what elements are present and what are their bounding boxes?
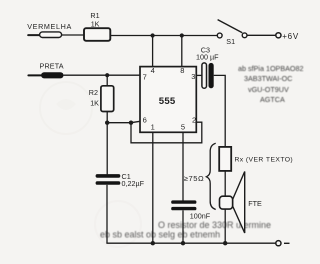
wire pin 8 riser	[181, 36, 183, 68]
svg-text:100 µF: 100 µF	[196, 52, 219, 61]
svg-text:R2: R2	[89, 88, 98, 97]
wire pin 1 to rail	[152, 132, 154, 243]
faint bleed-through text bottom	[100, 220, 271, 240]
wire probe to R1	[62, 34, 84, 36]
resistor R2	[101, 86, 114, 112]
capacitor 100nF	[171, 200, 196, 210]
svg-text:eb sb ealst ob selg eb etnemh: eb sb ealst ob selg eb etnemh	[100, 230, 220, 240]
switch S1	[217, 20, 247, 38]
speaker FTE	[220, 172, 245, 234]
resistor R1	[84, 28, 110, 41]
wire R2 bottom to C1 (vertical)	[106, 112, 108, 175]
node junction feedback loop	[129, 121, 133, 125]
wire C1 to rail corner	[106, 185, 108, 243]
svg-text:1K: 1K	[90, 99, 99, 108]
wire 100nF to rail	[182, 210, 184, 243]
svg-text:555: 555	[159, 96, 176, 107]
faint watermark circle upper-left	[40, 82, 92, 134]
svg-text:+6V: +6V	[282, 32, 299, 41]
wire C3 to Rx	[214, 75, 226, 147]
terminal negative	[276, 241, 281, 246]
svg-text:PRETA: PRETA	[40, 62, 64, 71]
wire pin 5 to 100nF	[182, 132, 184, 200]
svg-text:7: 7	[143, 72, 147, 81]
svg-text:5: 5	[181, 123, 185, 132]
node junction pin8/top rail	[180, 33, 184, 37]
svg-text:100nF: 100nF	[190, 212, 211, 221]
wire R2 top lead	[106, 75, 108, 86]
svg-text:ab sfPia 1OPBAO82: ab sfPia 1OPBAO82	[238, 64, 304, 73]
wire pin 6 horizontal	[107, 122, 131, 124]
svg-text:3AB3TWAI-OC: 3AB3TWAI-OC	[244, 74, 292, 83]
svg-text:2: 2	[192, 116, 196, 125]
capacitor C1	[96, 174, 121, 185]
svg-text:6: 6	[143, 116, 147, 125]
wire switch to +6V terminal	[247, 34, 276, 36]
probe VERMELHA (red test lead, open body)	[28, 32, 61, 38]
faint bleed-through text block right of C3	[238, 64, 304, 104]
terminal +6V	[276, 33, 281, 38]
negative rail (bottom)	[106, 242, 275, 244]
faint watermark circle lower-left	[95, 201, 141, 247]
wire loop junction to pin 6	[131, 121, 140, 122]
wire speaker to rail	[224, 209, 226, 243]
svg-text:4: 4	[151, 66, 155, 75]
wire Rx to speaker	[224, 171, 226, 196]
wire feedback loop (pin6 to pin2)	[131, 122, 202, 143]
svg-text:FTE: FTE	[248, 199, 262, 208]
svg-text:1K: 1K	[91, 20, 100, 29]
label VERMELHA	[27, 22, 72, 31]
svg-text:VERMELHA: VERMELHA	[27, 22, 72, 31]
probe PRETA (black test lead, solid body)	[28, 72, 63, 78]
label minus	[284, 242, 290, 244]
IC 555	[140, 67, 196, 133]
svg-text:≥75Ω: ≥75Ω	[184, 174, 205, 183]
svg-text:AGTCA: AGTCA	[260, 95, 285, 104]
svg-text:0,22µF: 0,22µF	[122, 179, 145, 188]
node junction 100nF/rail	[181, 241, 185, 245]
node junction pin6 branch	[105, 121, 109, 125]
svg-text:8: 8	[180, 66, 184, 75]
node junction pin4/top rail	[151, 33, 155, 37]
node junction pin1/rail	[151, 241, 155, 245]
capacitor C3 (electrolytic)	[202, 63, 214, 88]
wire pin 4 riser	[152, 36, 154, 68]
svg-text:vGU-OT9UV: vGU-OT9UV	[248, 85, 289, 94]
node junction speaker/rail	[223, 241, 227, 245]
brace for >=75 ohm	[206, 143, 215, 209]
wire R1 to switch (top rail)	[110, 35, 217, 37]
resistor Rx	[219, 147, 231, 171]
wire pin 3 to C3	[196, 74, 202, 76]
svg-text:S1: S1	[226, 37, 235, 46]
svg-text:1: 1	[151, 123, 155, 132]
svg-text:O resistor de 330R utermine: O resistor de 330R utermine	[158, 220, 271, 230]
wire probe PRETA to pin 7	[64, 74, 141, 76]
node junction R2 top	[105, 73, 109, 77]
svg-text:3: 3	[191, 72, 195, 81]
svg-text:Rx (VER TEXTO): Rx (VER TEXTO)	[235, 156, 294, 163]
